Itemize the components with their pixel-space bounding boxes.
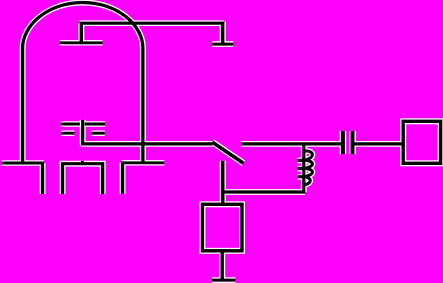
wire anode to top-right terminal [80, 22, 225, 25]
bottom terminal bar [212, 279, 235, 282]
cathode dash left [61, 132, 75, 135]
grid lead wire [81, 120, 84, 145]
inductor L loops [297, 151, 312, 184]
capacitor C left plate [341, 131, 345, 154]
grid bar left segment [61, 123, 80, 126]
resistor R2 box [403, 121, 440, 163]
capacitor C right plate [351, 131, 355, 154]
switch lower contact wire to resistor R1 [221, 161, 224, 203]
wire capacitor to resistor R2 [355, 142, 402, 145]
wire resistor R1 to bottom terminal [220, 252, 223, 281]
grid bar right segment [85, 123, 106, 126]
cathode dash right [91, 132, 105, 135]
switch K blade [213, 142, 244, 163]
wire drop to terminal bar [221, 22, 224, 44]
cathode pin wire left [41, 163, 44, 194]
wire grid to switch [81, 142, 212, 145]
heater center tap nub [81, 161, 84, 165]
cathode terminal bar left [1, 162, 44, 165]
anode plate bar [60, 41, 103, 44]
wire switch to capacitor [241, 142, 341, 145]
tube envelope VL1 [23, 3, 143, 164]
inductor L stem [302, 145, 305, 192]
resistor R1 box [202, 204, 242, 251]
cathode terminal bar right [121, 161, 164, 164]
cathode pin wire right [121, 163, 124, 194]
anode lead wire [80, 23, 83, 44]
heater filament [63, 164, 103, 194]
terminal bar (top-right electrode) [212, 43, 233, 46]
wire inductor bottom to switch contact [223, 190, 305, 193]
